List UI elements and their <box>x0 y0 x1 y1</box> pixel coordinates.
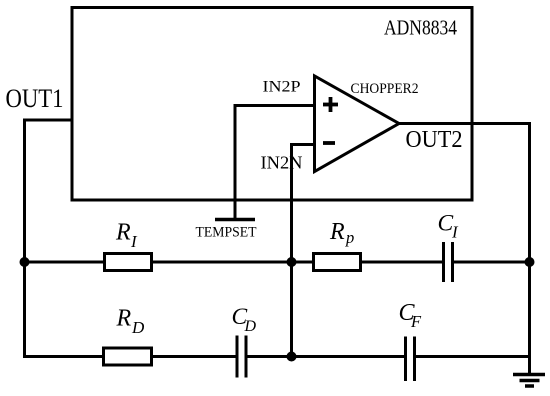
wire bottom row center <box>246 355 292 358</box>
svg-text:D: D <box>244 318 257 335</box>
label Rp <box>329 219 354 247</box>
wire IN2N stub <box>290 143 316 146</box>
junction dot bottom center <box>287 352 297 362</box>
label TEMPSET <box>196 225 257 241</box>
svg-text:IN2P: IN2P <box>263 79 301 96</box>
label RD <box>116 306 146 338</box>
svg-text:CHOPPER2: CHOPPER2 <box>351 81 419 97</box>
label OUT2 <box>406 126 463 153</box>
wire IN2P vertical to TEMPSET <box>234 104 237 219</box>
label CF <box>399 300 423 331</box>
op-amp - input mark <box>323 141 335 145</box>
label CI <box>438 210 460 241</box>
svg-text:R: R <box>329 219 345 245</box>
wire OUT2 output <box>397 122 531 125</box>
resistor Rp <box>314 254 361 271</box>
op-amp + input mark <box>323 97 338 112</box>
label IN2P <box>263 79 301 96</box>
wire bottom row center-left <box>151 355 237 358</box>
svg-text:D: D <box>131 318 145 337</box>
label IN2N <box>261 152 303 172</box>
wire middle row left <box>23 261 104 264</box>
junction dot center middle <box>287 257 297 267</box>
svg-text:R: R <box>116 306 132 332</box>
ground right symbol <box>513 375 545 387</box>
label OUT1 <box>6 83 64 113</box>
wire left rail <box>23 119 26 359</box>
capacitor CI <box>444 242 453 282</box>
svg-text:ADN8834: ADN8834 <box>384 15 457 39</box>
junction dot left middle <box>20 257 30 267</box>
junction dot right middle <box>525 257 535 267</box>
svg-text:p: p <box>345 228 354 247</box>
svg-text:OUT1: OUT1 <box>6 83 64 113</box>
ground TEMPSET bar <box>215 218 255 222</box>
svg-text:R: R <box>115 220 131 246</box>
wire middle row center <box>152 261 314 264</box>
svg-text:OUT2: OUT2 <box>406 126 463 153</box>
label CHOPPER2 <box>351 81 419 97</box>
wire middle row right <box>360 261 444 264</box>
label ADN8834 <box>384 15 457 39</box>
capacitor CF <box>406 337 415 382</box>
wire bottom row left <box>23 355 104 358</box>
resistor RD <box>104 348 152 365</box>
wire bottom row right <box>415 355 530 358</box>
svg-text:IN2N: IN2N <box>261 152 303 172</box>
label CD <box>232 304 257 335</box>
wire IN2P horizontal <box>234 104 317 107</box>
svg-text:TEMPSET: TEMPSET <box>196 225 257 241</box>
wire center rail <box>290 143 293 358</box>
chip box U1 outline <box>72 8 472 201</box>
wire bottom row center-right <box>292 355 406 358</box>
label RI <box>115 220 138 252</box>
svg-text:F: F <box>410 312 422 331</box>
wire OUT1 pin stub <box>25 119 74 122</box>
wire right rail <box>528 122 531 375</box>
op-amp U1 (CHOPPER2) <box>315 76 400 172</box>
resistor RI <box>105 254 152 271</box>
wire middle row far right <box>453 261 530 264</box>
capacitor CD <box>237 336 246 378</box>
